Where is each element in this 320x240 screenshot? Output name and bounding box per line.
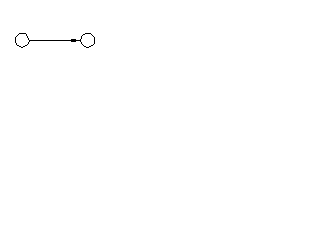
node B (right circle of digraph)	[80, 33, 95, 48]
node A junction pixel	[29, 41, 30, 42]
node A (left circle of digraph)	[15, 33, 29, 48]
wire (directed edge from node A to node B, row 40)	[29, 40, 80, 41]
arrowhead (solid block pointing at node B)	[71, 39, 76, 42]
background	[0, 0, 144, 86]
